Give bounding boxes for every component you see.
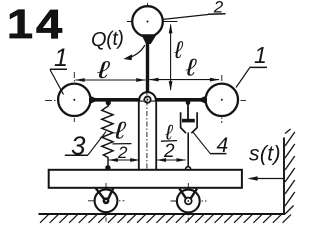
wall line — [283, 138, 285, 215]
svg-text:1: 1 — [254, 42, 267, 68]
damper stem bottom — [187, 133, 189, 168]
arm wedge left — [90, 96, 100, 104]
left wheel fork — [96, 188, 104, 199]
svg-text:ℓ: ℓ — [174, 37, 184, 64]
dimension l/2 right — [157, 159, 186, 161]
pivot housing arc — [139, 92, 156, 100]
arm wedge right — [197, 96, 207, 104]
spring 3 — [102, 103, 113, 166]
left wheel hub — [103, 197, 110, 204]
right wheel fork — [179, 189, 186, 199]
spring bottom attachment — [105, 165, 110, 170]
ground line — [39, 213, 285, 215]
svg-text:Q(t): Q(t) — [90, 27, 124, 51]
damper piston plate — [182, 119, 195, 123]
spring top attachment — [106, 100, 111, 105]
s(t) arrow — [250, 178, 284, 180]
damper bottom pin — [186, 167, 191, 172]
centerline top mass horizontal — [127, 21, 178, 23]
dimension l/2 left — [109, 159, 140, 161]
right wheel hub — [185, 198, 192, 205]
centerline top mass vertical — [147, 3, 149, 40]
platform — [49, 170, 242, 188]
central column right line — [155, 102, 157, 171]
horizontal arm — [89, 98, 207, 102]
leader from label 4 — [193, 132, 211, 154]
damper cylinder — [181, 112, 198, 133]
left wheel — [95, 189, 118, 212]
mass 2 circle — [132, 6, 163, 37]
right mass centerline vertical — [221, 75, 223, 123]
right wheel centerlines — [187, 183, 189, 222]
left mass centerline vertical — [73, 72, 75, 122]
Q(t) curved arrow — [129, 45, 145, 58]
svg-text:s(t): s(t) — [249, 143, 281, 166]
leader from label 1 left — [50, 70, 63, 95]
damper stem top — [187, 102, 189, 120]
central dash-dot centerline — [146, 90, 148, 187]
dimension l left arm — [76, 79, 146, 81]
leader from label 3 — [88, 132, 106, 156]
svg-text:ℓ: ℓ — [113, 117, 127, 144]
funnel joint under mass 2 — [141, 34, 157, 44]
svg-text:1: 1 — [54, 44, 68, 72]
ground hatching — [40, 215, 291, 223]
central column left line — [138, 102, 140, 171]
svg-text:14: 14 — [7, 2, 65, 47]
pivot pin — [144, 96, 150, 102]
svg-text:2: 2 — [163, 141, 175, 162]
leader from label 1 right — [236, 68, 250, 88]
leader to label 2 — [162, 15, 208, 20]
svg-text:ℓ: ℓ — [96, 57, 110, 83]
vertical rod — [146, 42, 149, 92]
right mass centerline horizontal — [203, 99, 246, 101]
svg-text:2: 2 — [117, 143, 128, 162]
svg-text:ℓ: ℓ — [185, 53, 197, 80]
wall hatching — [285, 129, 295, 214]
left wheel centerlines — [105, 183, 107, 222]
mass 1 right circle — [206, 84, 238, 116]
right wheel — [177, 190, 200, 213]
mass 1 left circle — [58, 84, 90, 116]
left mass centerline horizontal — [45, 99, 100, 101]
dimension l right arm — [150, 79, 220, 81]
dimension l vertical — [170, 25, 172, 91]
